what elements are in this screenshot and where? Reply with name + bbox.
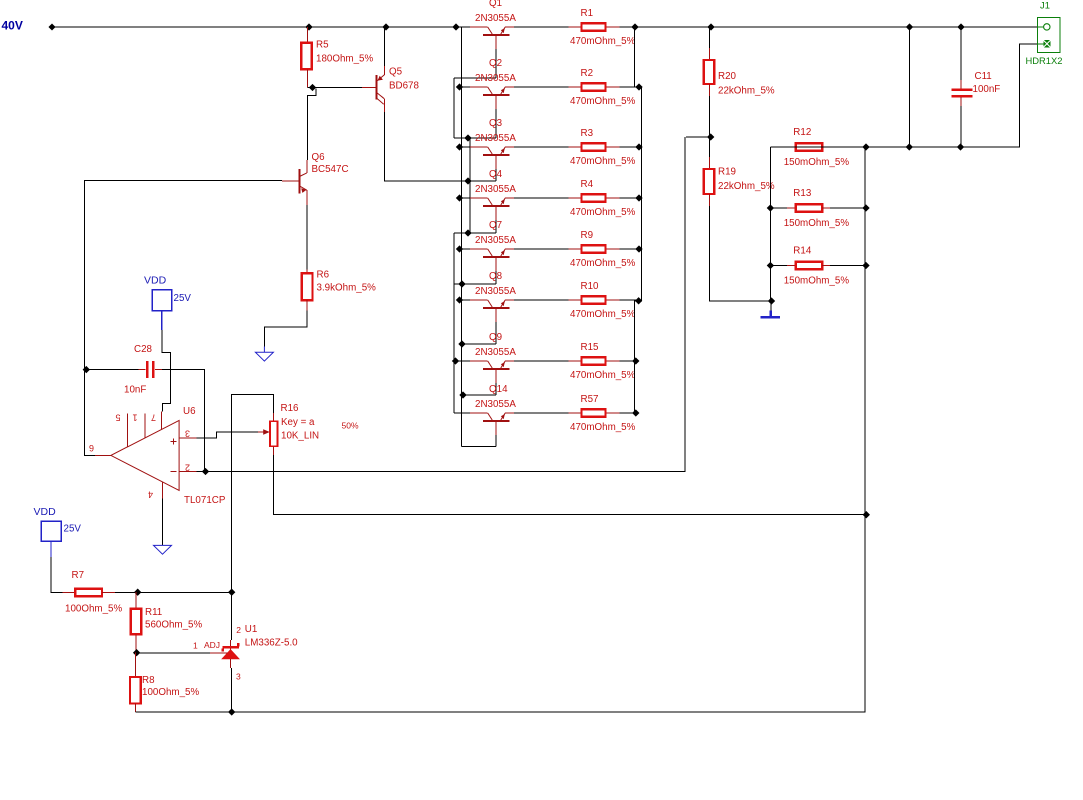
svg-text:ADJ: ADJ	[204, 640, 220, 650]
capacitor C11	[951, 71, 1000, 106]
resistor R4	[570, 179, 636, 218]
pin 1 J1	[1044, 24, 1050, 30]
wire Q8 emitter to R10	[505, 299, 641, 301]
svg-text:3.9kOhm_5%: 3.9kOhm_5%	[317, 283, 377, 294]
wire R7 to R16 node	[115, 591, 231, 593]
svg-text:2: 2	[236, 625, 241, 635]
svg-text:U6: U6	[183, 406, 196, 417]
wire Q2 collector lead red	[470, 86, 488, 88]
svg-text:U1: U1	[245, 624, 258, 635]
svg-text:2N3055A: 2N3055A	[475, 235, 516, 246]
wire R10 right lead	[606, 299, 620, 301]
junction collector bus Q2	[456, 83, 463, 90]
junction collector bus Q3	[456, 143, 463, 150]
wire Q2 base drop	[495, 109, 497, 138]
junction base chain Q2	[464, 134, 471, 141]
junction right bus R14	[862, 262, 869, 269]
transistor Q5	[377, 67, 420, 105]
wire Q7 emitter to R9	[505, 248, 641, 250]
svg-text:VDD: VDD	[144, 275, 167, 287]
wire R14 right lead red	[822, 265, 830, 267]
wire R12 left lead	[770, 146, 787, 148]
svg-text:2N3055A: 2N3055A	[475, 184, 516, 195]
wire R16 bottom to right bus	[274, 455, 866, 515]
wire R10 left lead	[569, 299, 582, 301]
wire Q9 emitter to R15	[505, 360, 635, 362]
wire R2 left lead	[569, 86, 582, 88]
wire rail to pin2 line	[909, 27, 911, 147]
resistor R19	[704, 167, 775, 195]
junction rail tap top	[906, 23, 913, 30]
wire VDD to opamp pin7 zigzag	[162, 330, 171, 412]
wire R4 right lead	[606, 197, 620, 199]
junction R20 R19 sense	[707, 133, 714, 140]
svg-text:Q7: Q7	[489, 220, 502, 231]
svg-text:VDD: VDD	[34, 506, 57, 518]
junction base chain Q4	[464, 229, 471, 236]
wire C28 left wire	[86, 369, 139, 371]
wire R4 left lead	[569, 197, 582, 199]
svg-text:22kOhm_5%: 22kOhm_5%	[718, 86, 775, 97]
wire Q9 emitter lead red	[505, 360, 514, 362]
svg-text:100nF: 100nF	[973, 84, 1001, 95]
junction shunt left R13	[767, 204, 774, 211]
svg-text:R5: R5	[316, 40, 329, 51]
wire Q5 base lead	[362, 87, 377, 89]
power VDD upper	[144, 275, 191, 311]
svg-text:Q9: Q9	[489, 332, 502, 343]
svg-text:470mOhm_5%: 470mOhm_5%	[570, 207, 636, 218]
junction U1 bottom line	[228, 708, 235, 715]
wire ADJ to R11 R8 node	[137, 652, 210, 654]
wire R11 top lead	[135, 592, 137, 609]
wire Q4 emitter lead red	[505, 197, 514, 199]
svg-text:150mOhm_5%: 150mOhm_5%	[784, 218, 850, 229]
wire Q14 collector stub	[454, 412, 488, 414]
svg-text:2: 2	[185, 463, 190, 473]
svg-text:Q8: Q8	[489, 271, 503, 282]
svg-text:Key = a: Key = a	[281, 417, 315, 428]
wire Q4 base drop	[495, 220, 497, 233]
svg-text:470mOhm_5%: 470mOhm_5%	[570, 422, 636, 433]
resistor R11	[131, 607, 203, 634]
wire Q4 collector stub	[460, 197, 488, 199]
transistor Q2	[475, 58, 516, 109]
junction pin2 line rail tap	[906, 143, 913, 150]
wire Q9 collector stub	[454, 360, 488, 362]
junction emitter bus R9	[635, 245, 642, 252]
wire Q4 emitter to R4	[505, 197, 641, 199]
junction collector bus Q8	[456, 296, 463, 303]
wire C11 bottom wire	[960, 106, 962, 147]
wire Q3 collector stub	[460, 146, 488, 148]
op-amp U6	[89, 406, 226, 506]
wire R6 bottom lead	[306, 300, 308, 311]
svg-text:R13: R13	[793, 188, 812, 199]
svg-text:BD678: BD678	[389, 81, 420, 92]
svg-text:6: 6	[89, 443, 94, 453]
wire Q8 collector lead red	[470, 299, 488, 301]
svg-text:R3: R3	[581, 128, 594, 139]
wire Q5 collector lead	[383, 99, 385, 112]
junction C28 feedback	[83, 366, 90, 373]
svg-text:25V: 25V	[64, 524, 82, 535]
wire Q9 base drop	[495, 383, 497, 395]
wire Q2 collector stub	[460, 86, 488, 88]
wire Q14 emitter to R57	[505, 412, 635, 414]
junction R7 R11	[134, 589, 141, 596]
wire emitter bus	[635, 27, 642, 413]
junction right bus R12	[862, 143, 869, 150]
wire Q7 collector lead red	[470, 248, 488, 250]
wire R12 to right bus	[830, 146, 866, 148]
wire R6 to ground	[264, 311, 307, 347]
wire Q14 collector lead red	[470, 412, 488, 414]
junction output line C11	[957, 23, 964, 30]
wire Q14 base line	[462, 446, 497, 448]
resistor R20	[704, 60, 775, 97]
svg-text:Q4: Q4	[489, 169, 503, 180]
resistor R12	[784, 127, 850, 168]
wire R15 left lead	[569, 360, 582, 362]
wire R11 bottom lead	[135, 634, 137, 652]
wire base chain x470	[469, 138, 471, 233]
wire R14 to right bus	[830, 265, 866, 267]
junction rail Q5 emitter	[382, 23, 389, 30]
wire R12 right lead red	[822, 146, 830, 148]
potentiometer R16	[258, 403, 359, 455]
svg-text:150mOhm_5%: 150mOhm_5%	[784, 157, 850, 168]
svg-text:LM336Z-5.0: LM336Z-5.0	[245, 638, 298, 649]
wire Q1 base drop	[495, 49, 497, 78]
wire R57 right lead	[606, 412, 620, 414]
svg-text:25V: 25V	[174, 293, 192, 304]
svg-text:2N3055A: 2N3055A	[475, 399, 516, 410]
wire shunt left bus	[769, 147, 771, 301]
wire R19 bottom lead	[708, 194, 710, 206]
wire sense tap to minus line	[686, 136, 710, 138]
resistor R1	[570, 8, 636, 47]
svg-text:1: 1	[132, 413, 137, 423]
junction emitter bus R4	[635, 194, 642, 201]
svg-text:2N3055A: 2N3055A	[475, 73, 516, 84]
wire R20 bottom wire	[708, 96, 710, 137]
junction base chain Q9	[459, 391, 466, 398]
wire Q5 emitter to rail	[383, 27, 385, 75]
svg-text:TL071CP: TL071CP	[184, 495, 226, 506]
wire Q6 emitter to R6	[306, 205, 308, 269]
transistor Q14	[475, 384, 516, 435]
wire Q8 collector stub	[460, 299, 488, 301]
wire Q6 collector jog	[307, 89, 316, 161]
svg-text:R2: R2	[581, 68, 594, 79]
wire plus input to pot wiper	[197, 432, 265, 438]
svg-text:3: 3	[185, 429, 190, 439]
svg-text:1: 1	[193, 641, 198, 651]
transistor Q3	[475, 118, 516, 169]
pin 2 J1	[1043, 40, 1050, 47]
wire R16 top to R7 node	[231, 395, 273, 593]
junction collector bus Q4	[456, 194, 463, 201]
wire U1 anode down	[231, 668, 233, 712]
wire R13 left lead red	[787, 207, 796, 209]
wire R19 top wire	[708, 137, 710, 157]
svg-text:R15: R15	[581, 342, 600, 353]
net 40V start diamond	[48, 23, 55, 30]
wire Q7 collector stub	[460, 248, 488, 250]
wire R20 top lead	[708, 48, 710, 60]
svg-text:R9: R9	[581, 230, 594, 241]
svg-text:470mOhm_5%: 470mOhm_5%	[570, 36, 636, 47]
wire R19 top lead	[708, 157, 710, 169]
wire R2 right lead	[606, 86, 620, 88]
voltage reference U1	[193, 624, 298, 682]
wire bottom ground line	[136, 147, 865, 712]
transistor Q9	[475, 332, 516, 383]
svg-text:560Ohm_5%: 560Ohm_5%	[145, 620, 202, 631]
resistor R8	[130, 675, 199, 704]
svg-text:R20: R20	[718, 71, 737, 82]
wire R20 bottom lead	[708, 84, 710, 96]
svg-text:R1: R1	[581, 8, 594, 19]
wire R6 top lead	[306, 269, 308, 273]
svg-text:470mOhm_5%: 470mOhm_5%	[570, 309, 636, 320]
wire Q7 emitter lead red	[505, 248, 514, 250]
svg-text:Q1: Q1	[489, 0, 502, 9]
transistor Q4	[475, 169, 516, 220]
svg-text:470mOhm_5%: 470mOhm_5%	[570, 370, 636, 381]
svg-text:Q5: Q5	[389, 67, 403, 78]
junction collector bus Q7	[456, 245, 463, 252]
wire Q8 emitter lead red	[505, 299, 514, 301]
wire R3 right lead	[606, 146, 620, 148]
wire Q1 emitter lead red	[505, 26, 514, 28]
wire Q9 collector lead red	[470, 360, 488, 362]
svg-text:180Ohm_5%: 180Ohm_5%	[316, 54, 373, 65]
junction emitter bus R10	[635, 297, 642, 304]
resistor R6	[302, 270, 376, 301]
wire R9 left lead	[569, 248, 582, 250]
wire R13 left lead	[770, 207, 787, 209]
wire VDD lower stem blue	[50, 541, 52, 557]
svg-text:100Ohm_5%: 100Ohm_5%	[142, 687, 199, 698]
wire R14 left lead red	[787, 265, 796, 267]
svg-text:470mOhm_5%: 470mOhm_5%	[570, 258, 636, 269]
svg-text:2N3055A: 2N3055A	[475, 133, 516, 144]
wire Q7 base drop	[495, 271, 497, 284]
junction minus input C28	[202, 468, 209, 475]
svg-text:2N3055A: 2N3055A	[475, 13, 516, 24]
wire Q6 emitter lead	[306, 190, 308, 205]
svg-text:2N3055A: 2N3055A	[475, 286, 516, 297]
wire Q6 collector lead	[306, 160, 308, 173]
svg-text:R7: R7	[72, 570, 85, 581]
svg-text:C11: C11	[975, 71, 992, 82]
svg-text:J1: J1	[1040, 0, 1050, 11]
wire Q14 base drop	[495, 435, 497, 447]
wire R20 top wire	[708, 27, 710, 48]
wire Q2 emitter to R2	[505, 86, 641, 88]
wire Q14 emitter lead red	[505, 412, 514, 414]
svg-text:10nF: 10nF	[124, 385, 146, 396]
junction base chain Q7	[458, 280, 465, 287]
svg-text:470mOhm_5%: 470mOhm_5%	[570, 96, 636, 107]
wire C28 right to minus input	[162, 370, 205, 472]
wire R3 left lead	[569, 146, 582, 148]
svg-text:22kOhm_5%: 22kOhm_5%	[718, 181, 775, 192]
junction emitter bus R15	[632, 357, 639, 364]
junction emitter bus R57	[632, 409, 639, 416]
resistor R2	[570, 68, 636, 107]
svg-text:2N3055A: 2N3055A	[475, 347, 516, 358]
wire Q4 collector lead red	[470, 197, 488, 199]
wire opamp pin4 to ground	[162, 498, 164, 545]
wire minus input line	[197, 137, 685, 472]
resistor R3	[570, 128, 636, 167]
svg-text:HDR1X2: HDR1X2	[1026, 55, 1063, 66]
wire R8 bottom lead	[135, 704, 137, 713]
resistor R5	[301, 40, 373, 70]
svg-text:4: 4	[148, 490, 153, 500]
svg-text:100Ohm_5%: 100Ohm_5%	[65, 604, 122, 615]
junction pin2 line C11	[957, 143, 964, 150]
wire base chain x454 lower	[453, 233, 455, 413]
junction right bus pot line	[863, 511, 870, 518]
connector J1	[1026, 0, 1063, 66]
wire Q3 emitter to R3	[505, 146, 641, 148]
wire VDD lower to R7	[51, 557, 63, 592]
transistor Q8	[475, 271, 516, 322]
wire R1 right lead	[606, 26, 620, 28]
wire Q6 base lead	[282, 180, 300, 182]
junction right bus R13	[862, 204, 869, 211]
resistor R57	[570, 394, 636, 433]
svg-text:Q2: Q2	[489, 58, 502, 69]
wire Q5 collector down to base bus	[384, 112, 496, 181]
svg-text:R4: R4	[581, 179, 594, 190]
wire Q1 collector lead red	[470, 26, 488, 28]
ground below R6	[255, 347, 273, 362]
svg-text:10K_LIN: 10K_LIN	[281, 431, 319, 442]
wire Q8 base line	[462, 343, 497, 345]
svg-text:Q6: Q6	[312, 152, 326, 163]
wire Q2 base line	[454, 137, 496, 139]
junction collector Q9	[452, 357, 459, 364]
junction base chain Q8	[458, 340, 465, 347]
resistor R15	[570, 342, 636, 381]
transistor Q7	[475, 220, 516, 271]
ground below shunt bus	[761, 311, 780, 318]
wire R5 top lead	[306, 27, 308, 43]
junction base chain Q3	[464, 177, 471, 184]
junction emitter bus R2	[635, 83, 642, 90]
wire R13 right lead red	[822, 207, 830, 209]
ground below opamp	[154, 545, 172, 554]
wire 40V rail left segment	[52, 26, 488, 28]
junction R11 R8 ADJ	[133, 649, 140, 656]
svg-text:150mOhm_5%: 150mOhm_5%	[784, 275, 850, 286]
resistor R9	[570, 230, 636, 269]
wire collector bus x461	[461, 27, 463, 447]
svg-text:R19: R19	[718, 167, 736, 178]
capacitor C28	[124, 344, 162, 396]
wire R14 left lead	[770, 265, 787, 267]
wire R5 to Q5 base	[307, 87, 362, 89]
wire Q2 emitter lead red	[505, 86, 514, 88]
wire Q1 base line	[454, 77, 496, 79]
junction shunt ground	[768, 297, 775, 304]
svg-text:R12: R12	[793, 127, 811, 138]
svg-text:7: 7	[151, 413, 156, 423]
svg-text:50%: 50%	[342, 421, 359, 431]
svg-text:R57: R57	[581, 394, 599, 405]
wire Q9 base line	[462, 394, 497, 396]
transistor Q6	[300, 152, 349, 193]
wire C11 top wire	[960, 27, 962, 80]
wire opamp output to feedback	[85, 181, 282, 456]
wire R12 left lead red	[787, 146, 796, 148]
wire ground stub	[770, 301, 772, 311]
svg-text:R10: R10	[581, 281, 600, 292]
svg-text:40V: 40V	[2, 19, 23, 33]
wire R1 left lead	[569, 26, 582, 28]
wire Q1 emitter to J1 line	[505, 26, 1037, 28]
wire Q3 emitter lead red	[505, 146, 514, 148]
svg-text:R11: R11	[145, 607, 162, 618]
wire Q5 emitter black	[383, 27, 385, 66]
wire R19 to ground bus	[709, 206, 771, 301]
wire base chain x454 upper	[453, 78, 455, 138]
wire Q7 base line	[454, 283, 496, 285]
svg-text:C28: C28	[134, 344, 153, 355]
wire Q3 base drop	[495, 169, 497, 181]
wire U1 cathode wire	[231, 592, 233, 640]
svg-text:3: 3	[236, 672, 241, 682]
wire J1 pin2 line	[770, 44, 1037, 147]
resistor R10	[570, 281, 636, 320]
svg-text:R6: R6	[317, 270, 330, 281]
junction rail collector bus	[452, 23, 459, 30]
resistor R14	[784, 246, 850, 287]
wire R15 right lead	[606, 360, 620, 362]
wire R9 right lead	[606, 248, 620, 250]
wire R13 to right bus	[830, 207, 866, 209]
resistor R13	[784, 188, 850, 229]
wire Q4 base line	[454, 232, 496, 234]
junction R7line R16 vertical	[228, 589, 235, 596]
junction R5 Q5 base	[309, 84, 316, 91]
svg-text:470mOhm_5%: 470mOhm_5%	[570, 156, 636, 167]
transistor Q1	[475, 0, 516, 49]
junction emitter bus R1	[631, 23, 638, 30]
resistor R7	[63, 570, 123, 615]
wire Q8 base drop	[495, 322, 497, 344]
svg-text:R8: R8	[142, 675, 155, 686]
wire VDD stem blue	[161, 311, 163, 331]
wire R5 bottom lead	[306, 69, 308, 87]
wire R8 top lead	[135, 653, 137, 677]
svg-text:Q3: Q3	[489, 118, 503, 129]
junction rail R5	[305, 23, 312, 30]
wire R57 left lead	[569, 412, 582, 414]
junction shunt left R14	[767, 262, 774, 269]
svg-text:BC547C: BC547C	[312, 164, 349, 175]
svg-text:Q14: Q14	[489, 384, 508, 395]
svg-text:R16: R16	[281, 403, 300, 414]
svg-text:5: 5	[115, 413, 120, 423]
wire Q3 collector lead red	[470, 146, 488, 148]
junction emitter bus R3	[635, 143, 642, 150]
